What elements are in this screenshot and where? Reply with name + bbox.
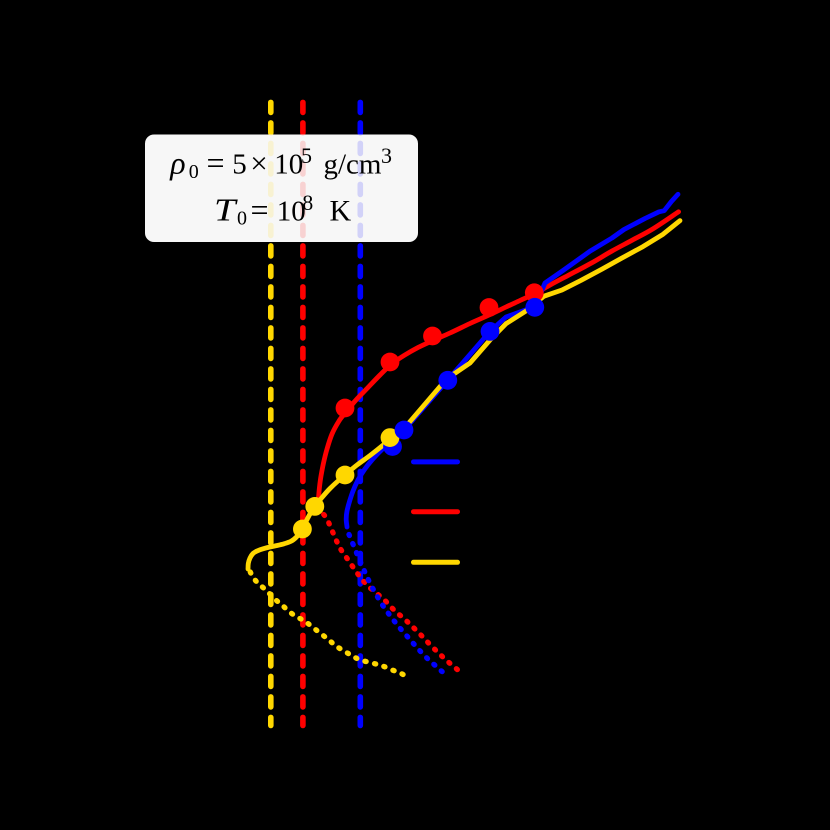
dotted yellow curve xyxy=(250,572,406,676)
yellow markers xyxy=(293,428,399,538)
svg-text:3: 3 xyxy=(381,143,392,168)
svg-text:5: 5 xyxy=(301,143,312,168)
svg-text:=: = xyxy=(207,144,225,180)
vertical dashed line yellow xyxy=(268,102,274,725)
svg-text:T: T xyxy=(214,191,238,227)
dotted blue curve xyxy=(349,535,446,675)
vertical dashed line red xyxy=(300,102,306,725)
legend line yellow xyxy=(414,560,458,565)
legend line blue xyxy=(414,459,458,464)
svg-text:0: 0 xyxy=(189,161,199,183)
svg-text:10: 10 xyxy=(274,148,303,180)
svg-text:0: 0 xyxy=(237,207,247,229)
annotation box xyxy=(145,135,418,243)
svg-text:×: × xyxy=(250,145,267,180)
svg-text:=: = xyxy=(251,191,269,227)
svg-text:K: K xyxy=(330,194,352,227)
blue markers xyxy=(395,298,545,440)
svg-text:g/cm: g/cm xyxy=(324,148,382,180)
solid blue curve xyxy=(346,194,678,527)
svg-text:8: 8 xyxy=(302,190,313,215)
solid yellow curve xyxy=(248,221,680,569)
solid red curve xyxy=(318,212,679,507)
blue marker hidden behind yellow xyxy=(383,437,402,456)
vertical dashed line blue xyxy=(357,102,363,725)
svg-text:ρ: ρ xyxy=(169,144,185,180)
legend line red xyxy=(414,509,458,514)
line 2: T_0 = 10^8 K xyxy=(214,190,352,230)
svg-text:5: 5 xyxy=(232,148,247,180)
line 1: rho_0 = 5 x 10^5 g/cm^3 xyxy=(169,143,392,183)
red markers xyxy=(336,283,544,417)
dotted red curve xyxy=(319,506,464,675)
